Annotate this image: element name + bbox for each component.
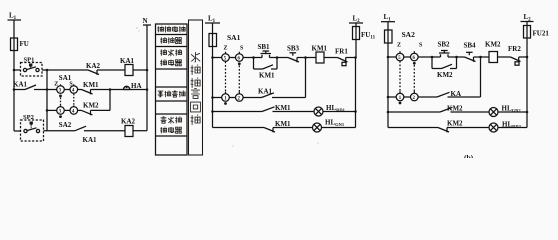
SA2 dot row C	[59, 115, 62, 118]
label KM2 self-hold	[437, 71, 453, 79]
lamp HL GN1	[313, 123, 356, 132]
wire merge up	[109, 90, 111, 111]
svg-text:S: S	[69, 81, 73, 87]
label SB3	[287, 45, 300, 53]
label FR1	[335, 48, 348, 56]
switch SA2 contact 1	[396, 91, 404, 101]
wire row A	[14, 69, 88, 71]
svg-text:KM2: KM2	[447, 120, 463, 128]
wire row1 to SB1	[243, 57, 253, 59]
node rbus-lamp1	[354, 110, 357, 113]
switch SA2 contact 6	[411, 51, 419, 61]
switch SA1 contact 6	[236, 52, 244, 62]
switch SA1 contact 2	[236, 92, 244, 102]
svg-text:KA1: KA1	[258, 88, 273, 96]
switch SA2 contact 5	[396, 51, 404, 61]
wire row2 stub right	[388, 96, 396, 98]
node KA riser top	[479, 56, 482, 59]
node SB1 right	[276, 56, 279, 59]
svg-text:KM2: KM2	[485, 41, 501, 49]
label KM1 coil	[312, 45, 328, 53]
label KA2 coil	[121, 118, 136, 126]
wire lamp row2 right	[388, 127, 438, 129]
label SP1	[24, 57, 35, 64]
svg-text:FU21: FU21	[533, 30, 550, 38]
label S (SA1)	[69, 81, 73, 87]
caption (b) faint	[464, 153, 474, 162]
SA1 contact 6 number	[238, 57, 241, 62]
contact KM1 (NC) lamp row2	[264, 128, 313, 133]
dashed link SA2 left	[399, 61, 401, 93]
label SA1	[59, 74, 72, 82]
label KM2 coil	[485, 41, 501, 49]
svg-text:KM1: KM1	[275, 120, 291, 128]
pushbutton SB1 (NO start)	[254, 51, 278, 58]
wire row B to HA	[110, 89, 147, 91]
text 熔断器 (fuse)	[160, 37, 181, 43]
contact KM2 (NC) lamp row2	[438, 128, 489, 133]
switch SA1 contact 1	[222, 92, 230, 102]
svg-text:S: S	[240, 46, 244, 52]
svg-text:Z: Z	[54, 81, 58, 87]
svg-text:KM2: KM2	[447, 105, 463, 113]
svg-text:SB2: SB2	[438, 41, 451, 49]
scan speckles	[136, 27, 318, 146]
terminal L1 (middle)	[205, 23, 220, 34]
pushbutton SB2 (NO start)	[432, 51, 457, 58]
node N-rowA	[146, 69, 149, 72]
terminal L2 (right)	[521, 22, 534, 26]
switch SA2 contact 2	[411, 91, 419, 101]
wire row B stub	[47, 89, 57, 91]
SA2 dot below 1	[399, 102, 402, 105]
label Z middle	[224, 46, 228, 52]
label Z (SA1)	[54, 81, 58, 87]
wire right bus middle	[355, 40, 358, 128]
switch SA1 contact 4	[70, 84, 78, 93]
label L1 right	[384, 13, 392, 23]
pressure switch SP1	[21, 63, 43, 77]
wire row1 stub	[213, 57, 222, 59]
node mbus-lamp1	[211, 110, 214, 113]
svg-text:FR2: FR2	[508, 45, 521, 53]
wire middle left bus	[212, 47, 214, 128]
svg-text:KM2: KM2	[437, 71, 453, 79]
svg-text:KM1: KM1	[312, 45, 328, 53]
node rbus2-row1	[387, 56, 390, 59]
svg-text:KA2: KA2	[86, 62, 101, 70]
node right bus row1	[354, 56, 357, 59]
SA1 dot below 6	[238, 62, 241, 65]
contact KA1 (NO) row2	[262, 93, 306, 98]
label L2 right	[524, 13, 532, 23]
svg-text:SA1: SA1	[227, 33, 241, 42]
contact KM2 (NC) row C	[82, 110, 111, 115]
svg-text:KA1: KA1	[120, 57, 135, 65]
alarm bell HA	[123, 86, 129, 89]
label SB2	[438, 41, 451, 49]
SA2 contact 1 number	[399, 96, 402, 101]
label SB1	[258, 43, 271, 51]
label S middle	[240, 46, 244, 52]
svg-text:KA2: KA2	[121, 118, 136, 126]
svg-text:FR1: FR1	[335, 48, 348, 56]
wire row D	[44, 130, 76, 132]
wire lamp row1 right	[388, 111, 440, 113]
node SB1 left	[252, 56, 255, 59]
node rbus2-lamp1	[387, 111, 390, 114]
svg-text:SB1: SB1	[258, 43, 271, 51]
wire mid vertical 47	[46, 70, 48, 131]
switch SA1 contact 5	[222, 52, 230, 62]
dashed link SA1 left	[225, 62, 227, 94]
wire right bus right circuit	[526, 38, 528, 128]
text 水位信号回路 vertical	[191, 52, 201, 125]
wire bus to SP2	[14, 130, 21, 132]
label SA1 middle	[227, 33, 241, 42]
label HL RD1	[326, 104, 346, 113]
svg-text:SA2: SA2	[402, 30, 416, 39]
SA2 contact 5 number	[398, 56, 401, 61]
text 高水位	[161, 117, 182, 123]
node right bus2 row1	[526, 56, 529, 59]
label KA	[451, 90, 462, 98]
wire 1-2 right	[404, 96, 411, 98]
wire row1 to coil	[306, 57, 317, 59]
label FU11	[361, 31, 376, 41]
terminal L1 (right)	[381, 22, 395, 30]
label KM2 lamp row2	[447, 120, 463, 128]
wire row1 to KM2 coil	[481, 56, 490, 58]
contact KA1 (NO) row B	[14, 85, 47, 90]
pressure switch SP2	[21, 120, 44, 141]
label KM2 lamp row1	[447, 105, 463, 113]
label KM1 lamp row2	[275, 120, 291, 128]
SA1 dot row B	[59, 95, 62, 98]
wire row C to KM2	[78, 109, 82, 111]
svg-text:KM1: KM1	[275, 104, 291, 112]
contact KM1 (NC) row B	[82, 90, 111, 95]
pushbutton SB4 (NC stop)	[457, 52, 481, 62]
label HA	[131, 82, 142, 90]
thermal relay FR2 (NC)	[511, 57, 528, 65]
switch SA2 contact 4	[70, 105, 78, 114]
terminal L2 (middle)	[349, 23, 363, 27]
wire between SA2 contacts	[64, 109, 70, 111]
fuse FU middle	[209, 34, 217, 47]
SA1 dot below 1	[224, 102, 227, 105]
wire left bus	[13, 51, 15, 132]
pushbutton SB3 (NC stop)	[277, 53, 306, 63]
text 控制电源 (control power)	[157, 26, 185, 32]
svg-text:SP1: SP1	[24, 57, 35, 64]
SA1 contact 5 number	[224, 57, 227, 62]
node mbus-row2	[211, 96, 214, 99]
node SB2 left	[431, 56, 434, 59]
label KA1 middle	[258, 88, 273, 96]
wire row1 to SB2	[418, 56, 432, 58]
wire row2 right	[418, 96, 437, 98]
SA2 contact 3 number	[59, 110, 62, 115]
label L1	[9, 12, 17, 22]
wire lamp row1	[213, 111, 263, 113]
node 47-rowB	[46, 88, 49, 91]
wire row2	[243, 97, 261, 99]
SA2 contact 6 number	[413, 56, 416, 61]
wire right-circuit left bus	[387, 43, 389, 128]
label SA2 right	[402, 30, 416, 39]
lamp HL RD1	[314, 107, 356, 116]
contact KM2 (NO self-hold)	[432, 64, 457, 68]
switch SA2 contact 3	[57, 105, 65, 114]
switch SA1 contact 3	[57, 84, 65, 93]
node A-47	[46, 69, 49, 72]
node N-rowB	[146, 88, 149, 91]
label FU21	[533, 30, 550, 38]
svg-text:KA: KA	[451, 90, 462, 98]
text 事故音响 (alarm)	[158, 91, 185, 97]
svg-text:HLGN1: HLGN1	[325, 119, 345, 128]
svg-text:FU: FU	[20, 40, 29, 48]
svg-text:KM1: KM1	[259, 72, 275, 80]
wire between SA1 contacts	[64, 89, 70, 91]
dashed link SA1-SA2 left	[60, 98, 62, 106]
node SB2 right	[455, 56, 458, 59]
svg-text:HA: HA	[131, 82, 142, 90]
text 低水位	[160, 49, 181, 55]
annotation row separators	[156, 35, 188, 137]
dashed link SA1-SA2 right	[73, 94, 75, 105]
thermal relay FR1 (NC)	[338, 58, 356, 66]
wire 5-6 right	[404, 56, 411, 58]
fuse FU21	[524, 26, 531, 39]
label HL GN2	[502, 105, 522, 114]
label KM1 row B	[83, 81, 99, 89]
svg-text:FU11: FU11	[361, 31, 376, 41]
label FU	[20, 40, 29, 48]
svg-text:(b): (b)	[464, 153, 474, 158]
text 继电器	[160, 127, 181, 133]
svg-text:KA1: KA1	[83, 136, 98, 144]
svg-text:HLRD1: HLRD1	[326, 104, 346, 113]
svg-text:SB3: SB3	[287, 45, 300, 53]
contact KM2 (NO) lamp row1	[440, 107, 489, 112]
contact KA1 (NO) row D	[75, 126, 125, 131]
wire row1 stub right	[388, 56, 396, 58]
terminal N	[143, 25, 151, 131]
contact KA2 (NC) row A	[88, 70, 125, 75]
label Z right	[397, 43, 401, 49]
wire lamp row2 left	[213, 127, 265, 129]
annotation column box	[156, 24, 188, 155]
contactor coil KM2	[489, 52, 511, 63]
node KA1 riser top	[304, 56, 307, 59]
label L2 middle	[353, 15, 361, 25]
fuse FU11	[353, 27, 360, 40]
SA2 contact 4 number	[72, 110, 75, 115]
node bus-rowA	[13, 69, 16, 72]
wire SB2 parallel left drop	[431, 57, 433, 69]
wire row2 stub	[213, 97, 222, 99]
wire 5-6	[229, 57, 235, 59]
svg-text:HLGN2: HLGN2	[502, 105, 522, 114]
wire SB2 parallel right drop	[456, 57, 458, 69]
svg-text:HLRD2: HLRD2	[502, 121, 522, 130]
contactor coil KM1	[316, 52, 338, 63]
terminal L1 (left circuit)	[8, 20, 22, 38]
label KA1 coil	[120, 57, 135, 65]
svg-text:N: N	[143, 17, 148, 25]
SA1 contact 1 number	[224, 97, 227, 102]
node bus-rowB	[13, 88, 16, 91]
node mbus-row1	[211, 56, 214, 59]
label KA1 contact	[13, 81, 28, 89]
label HL GN1	[325, 119, 345, 128]
text 继电器	[160, 60, 181, 66]
wire KA riser	[480, 57, 482, 97]
contact KM1 (NO self-hold)	[254, 65, 278, 69]
wire KA1 riser	[305, 58, 307, 98]
dashed link SA2 right	[413, 65, 415, 93]
wire row C stub	[47, 109, 57, 111]
svg-text:S: S	[419, 43, 423, 49]
wire row B to KM1	[78, 89, 82, 91]
label KA2	[86, 62, 101, 70]
label SB4	[464, 42, 477, 50]
dashed link SA1 right	[238, 66, 240, 94]
label KM2 row C	[83, 102, 99, 110]
lamp HL GN2	[489, 108, 527, 117]
svg-text:SA2: SA2	[59, 121, 72, 129]
svg-text:KM1: KM1	[83, 81, 99, 89]
SA2 dot below 6	[413, 62, 416, 65]
svg-text:KM2: KM2	[83, 102, 99, 110]
SA1 contact 4 number	[72, 89, 75, 94]
label KM1 lamp row1	[275, 104, 291, 112]
label HL RD2	[502, 121, 522, 130]
Chinese texts drawn as strokes	[157, 20, 202, 155]
lamp HL RD2	[489, 123, 527, 132]
wire 1-2	[229, 97, 235, 99]
svg-text:SP2: SP2	[23, 114, 34, 121]
node 47-rowC	[46, 109, 49, 112]
svg-text:SB4: SB4	[464, 42, 477, 50]
SA1 contact 3 number	[59, 89, 62, 94]
label KM1 self-hold	[259, 72, 275, 80]
wire SB1 parallel left drop	[253, 58, 255, 70]
label FR2	[508, 45, 521, 53]
wire SB1 parallel right drop	[276, 58, 278, 70]
SA1 contact 2 number	[238, 97, 241, 102]
label N	[143, 17, 148, 25]
vertical box 水位信号回路	[189, 20, 203, 155]
SA2 contact 2 number	[413, 96, 416, 101]
relay coil KA1	[125, 65, 147, 76]
label SP2	[23, 114, 34, 121]
node rbus2-lamp1r	[526, 111, 529, 114]
svg-text:KA1: KA1	[13, 81, 28, 89]
relay coil KA2	[125, 126, 147, 137]
fuse FU right	[385, 30, 393, 43]
svg-text:Z: Z	[224, 46, 228, 52]
node rbus2-row2	[387, 96, 390, 99]
label L1 middle	[208, 15, 216, 25]
contact KA (NO) row2	[437, 92, 481, 97]
label S right	[419, 43, 423, 49]
label KA1 row D	[83, 136, 98, 144]
label SA2	[59, 121, 72, 129]
svg-text:Z: Z	[397, 43, 401, 49]
contact KM1 (NO) lamp row1	[262, 107, 314, 112]
node merge 110	[109, 88, 112, 91]
fuse FU	[11, 38, 18, 51]
